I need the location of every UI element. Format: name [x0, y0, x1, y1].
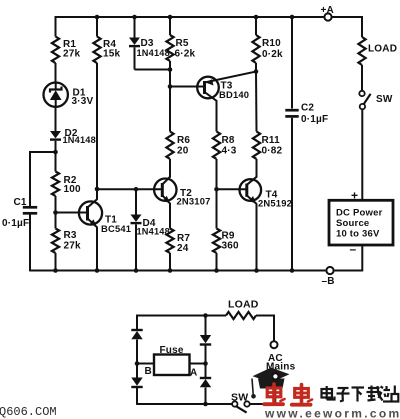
wire T3 collector to R8: [216, 100, 218, 132]
wire C2 bottom lead: [291, 118, 293, 271]
resistor R1: [52, 37, 59, 64]
node bottom rail T4: [254, 268, 259, 273]
diode D3 1N4148: [129, 38, 170, 59]
wire R10 column top: [255, 16, 257, 35]
transistor T3 BD140: [197, 72, 256, 101]
svg-text:1N4148: 1N4148: [137, 227, 170, 237]
node bottom rail R7: [168, 268, 173, 273]
wire T3 base: [170, 86, 205, 88]
wire D1 to D2: [55, 107, 57, 132]
node bottom rail T1: [95, 268, 100, 273]
node D2/R2/C1 junction: [53, 150, 58, 155]
svg-text:27k: 27k: [63, 49, 81, 60]
svg-text:R3: R3: [64, 230, 77, 241]
wire T4 emitter to bottom rail: [256, 204, 258, 271]
svg-text:A: A: [190, 368, 197, 379]
resistor R4: [93, 37, 100, 64]
wire D3 column top: [134, 16, 136, 38]
capacitor C1 0.1uF: [2, 197, 37, 229]
wire R4 column top: [96, 16, 98, 37]
node T3 base junction: [168, 84, 173, 89]
wire fuse left lead: [137, 363, 154, 365]
decorative watermark (not part of circuit): [251, 368, 289, 399]
wire SW to AC bottom: [250, 403, 276, 405]
svg-text:27k: 27k: [64, 241, 82, 252]
wire R5 to R6: [169, 61, 171, 132]
node junction top rail R5: [168, 15, 173, 20]
wire D2 to node: [55, 141, 57, 172]
svg-text:–: –: [350, 242, 357, 256]
node bottom rail D4: [134, 268, 139, 273]
terminal AC top: [271, 341, 278, 348]
resistor R10: [252, 35, 259, 63]
node T3 emitter junction: [254, 69, 259, 74]
svg-text:1N4148: 1N4148: [63, 135, 96, 145]
wire bridge middle column: [205, 316, 207, 336]
node bridge mid junction: [203, 361, 208, 366]
wire R5 column top: [169, 16, 171, 35]
wire R7 to bottom rail: [169, 253, 171, 271]
svg-text:6·2k: 6·2k: [175, 49, 196, 60]
wire SW to DC source: [361, 109, 363, 200]
wire R10 to T3 emitter node: [255, 63, 257, 72]
node junction top rail C2: [290, 15, 295, 20]
resistor R3: [52, 229, 59, 253]
svg-text:SW: SW: [376, 94, 393, 105]
watermark site name glyphs: [322, 386, 399, 402]
svg-text:2N3107: 2N3107: [177, 196, 211, 207]
wire bottom rail: [30, 270, 326, 272]
node D3 junction: [168, 67, 173, 72]
wire D3 down: [134, 47, 136, 69]
svg-text:Source: Source: [336, 218, 369, 229]
wire D3 to R5 column: [135, 69, 171, 71]
svg-text:C2: C2: [301, 103, 314, 114]
wire fuse right lead: [190, 363, 206, 365]
wire T4 base: [217, 188, 247, 190]
resistor R6: [166, 132, 173, 159]
wire right rail top corner: [361, 16, 362, 18]
resistor R11: [253, 132, 260, 159]
wire C1 top lead: [29, 151, 31, 206]
node junction top rail R4: [95, 15, 100, 20]
diode bridge top-left: [131, 329, 142, 331]
resistor LOAD (bridge): [226, 312, 256, 319]
diode bridge bottom-left: [131, 378, 142, 386]
wire R11 to T4 collector: [256, 159, 258, 178]
wire R1 to D1: [55, 63, 57, 83]
terminal AC bottom: [272, 373, 278, 379]
wire bridge bottom: [137, 403, 232, 405]
resistor LOAD: [358, 37, 365, 65]
svg-text:15k: 15k: [103, 49, 121, 60]
node bridge top middle: [203, 313, 208, 318]
svg-text:4·3: 4·3: [222, 146, 237, 157]
node bottom rail C2: [290, 268, 295, 273]
resistor R7: [166, 229, 173, 253]
wire T2 base: [97, 188, 162, 190]
node R2/R3/T1-base junction: [53, 210, 58, 215]
svg-text:R5: R5: [176, 38, 189, 49]
wire R2 to R3: [55, 196, 57, 229]
resistor R8: [213, 132, 220, 159]
wire R8 to R9: [216, 159, 218, 229]
svg-text:SW: SW: [231, 392, 248, 404]
node junction top rail R10: [254, 15, 259, 20]
node bridge left mid: [135, 361, 140, 366]
svg-text:R11: R11: [262, 135, 281, 146]
svg-text:www.eeworm.com: www.eeworm.com: [264, 407, 400, 419]
svg-text:1N4148: 1N4148: [137, 48, 170, 58]
diode D4 1N4148: [131, 215, 170, 237]
svg-text:360: 360: [222, 241, 240, 252]
svg-text:R6: R6: [177, 135, 190, 146]
svg-text:–B: –B: [322, 276, 335, 287]
svg-text:10 to 36V: 10 to 36V: [336, 228, 380, 239]
wire T2 emitter to R7: [169, 203, 171, 229]
svg-text:0·1µF: 0·1µF: [301, 114, 328, 125]
terminal +A: [324, 13, 331, 20]
svg-text:0·2k: 0·2k: [262, 49, 283, 60]
svg-text:Q606.COM: Q606.COM: [0, 405, 57, 419]
wire DC source to bottom rail: [361, 245, 363, 271]
svg-text:Fuse: Fuse: [160, 345, 184, 356]
wire D4 top lead: [135, 189, 137, 214]
switch SW (bridge): [231, 392, 250, 413]
watermark logo text: [264, 384, 312, 405]
wire R3 to bottom rail: [55, 253, 57, 271]
resistor R2: [52, 172, 59, 196]
diode bridge bottom-right: [200, 377, 211, 379]
wire top supply rail: [56, 16, 325, 18]
transistor T1 BC541: [79, 199, 131, 234]
node junction top rail D3: [132, 15, 137, 20]
transistor T2 2N3107: [154, 177, 210, 207]
wire C1 branch horizontal: [30, 151, 56, 153]
svg-text:24: 24: [177, 243, 189, 254]
svg-text:LOAD: LOAD: [368, 44, 397, 55]
wire T1 emitter to bottom rail: [96, 227, 98, 271]
wire C1 bottom lead: [29, 215, 31, 272]
diode bridge top-right: [200, 335, 211, 343]
resistor R5: [166, 35, 173, 61]
capacitor C2 0.1uF: [285, 103, 328, 126]
wire R6 to T2 collector: [169, 159, 171, 178]
DC power source U1: [329, 200, 393, 245]
wire LOAD to AC terminal: [256, 315, 275, 317]
wire C2 top lead: [291, 16, 293, 109]
svg-text:R8: R8: [222, 135, 235, 146]
node bottom rail R3: [53, 268, 58, 273]
wire bridge left column: [136, 315, 138, 331]
resistor R9: [213, 229, 220, 253]
svg-text:0·1µF: 0·1µF: [2, 218, 29, 229]
svg-text:C1: C1: [14, 197, 27, 208]
node bottom rail R9: [214, 268, 219, 273]
node R4/T2-base junction: [95, 187, 100, 192]
svg-text:20: 20: [177, 146, 189, 157]
zener diode D1 3.3V: [44, 83, 94, 108]
node bridge bottom middle: [203, 402, 208, 407]
wire R9 to bottom rail: [216, 253, 218, 271]
wire R1 column top: [55, 16, 57, 37]
terminal -B: [326, 267, 333, 274]
svg-text:LOAD: LOAD: [228, 299, 259, 311]
svg-text:R10: R10: [262, 38, 281, 49]
wire R4 down to T1 collector: [96, 63, 98, 200]
node D4 junction: [134, 187, 139, 192]
svg-text:3·3V: 3·3V: [72, 96, 94, 107]
svg-text:2N5192: 2N5192: [258, 198, 292, 209]
switch SW: [359, 91, 393, 110]
wire node to R11: [255, 72, 258, 132]
wire D4 to bottom rail: [135, 224, 137, 270]
svg-text:100: 100: [64, 184, 82, 195]
wire bridge top: [137, 315, 226, 317]
transistor T4 2N5192: [240, 177, 293, 209]
svg-text:0·82: 0·82: [262, 146, 283, 157]
svg-text:B: B: [145, 366, 152, 377]
diode D2 1N4148: [50, 128, 96, 145]
svg-text:BC541: BC541: [101, 223, 131, 234]
wire T1 base: [56, 212, 88, 214]
fuse F1: [154, 345, 190, 375]
svg-text:+A: +A: [321, 5, 334, 16]
wire LOAD to SW: [361, 65, 363, 91]
node T4 base junction: [214, 187, 219, 192]
svg-text:BD140: BD140: [219, 89, 249, 100]
